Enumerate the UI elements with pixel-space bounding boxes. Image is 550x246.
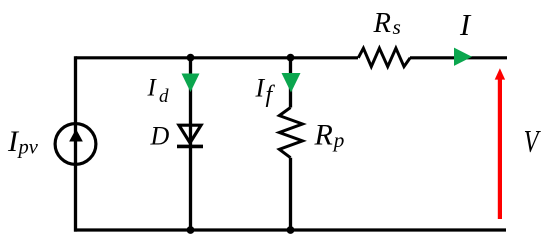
current arrow If — [282, 73, 301, 93]
label Rp — [314, 118, 345, 152]
svg-text:d: d — [159, 86, 169, 107]
label I — [459, 8, 472, 42]
wire diode branch — [189, 58, 192, 230]
wire left — [74, 56, 77, 231]
svg-text:I: I — [255, 73, 266, 102]
current arrow Id — [182, 74, 200, 93]
voltage arrow V — [495, 68, 505, 219]
resistor Rp — [279, 108, 302, 158]
svg-text:p: p — [332, 128, 345, 152]
wire Rp branch — [289, 58, 292, 230]
label Id — [147, 75, 170, 107]
label If — [255, 73, 276, 108]
diode D — [177, 125, 203, 146]
svg-text:R: R — [314, 118, 333, 151]
label D — [150, 121, 170, 150]
label Ipv — [7, 125, 39, 159]
label Rs — [373, 8, 401, 39]
junction dot top-left node — [187, 54, 195, 62]
current source Ipv — [55, 124, 96, 165]
wire top — [76, 56, 508, 59]
svg-text:D: D — [150, 121, 170, 150]
svg-text:s: s — [393, 15, 401, 39]
svg-text:I: I — [459, 8, 472, 42]
current arrow I — [454, 48, 472, 66]
svg-text:R: R — [373, 8, 391, 39]
junction dot bottom-right node — [287, 226, 295, 234]
junction dot top-right node — [287, 54, 295, 62]
wire bottom — [74, 228, 506, 231]
label V — [524, 125, 542, 160]
svg-text:pv: pv — [17, 137, 39, 159]
resistor Rs — [358, 48, 410, 66]
junction dot bottom-left node — [187, 226, 195, 234]
